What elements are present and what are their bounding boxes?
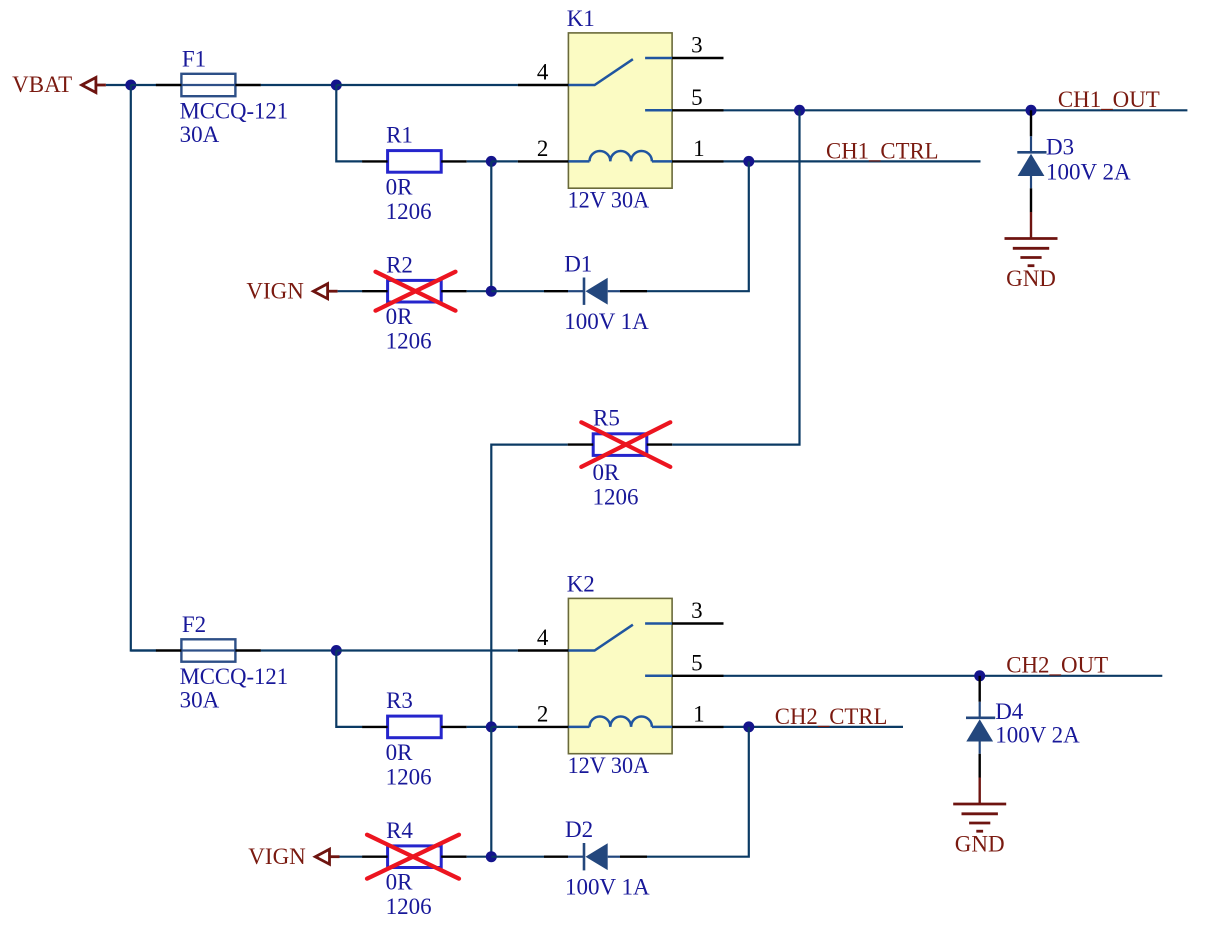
wire VBAT to junction xyxy=(106,84,131,86)
svg-text:3: 3 xyxy=(691,598,703,623)
svg-text:5: 5 xyxy=(691,651,703,676)
wire VIGN to R2 xyxy=(338,290,363,292)
pin D4 top xyxy=(979,676,981,702)
wire R1 to junction xyxy=(467,160,492,162)
svg-text:0R: 0R xyxy=(386,740,414,765)
K1 pin 2 xyxy=(518,160,569,162)
diode D4 100V 2A xyxy=(979,702,981,718)
svg-text:D4: D4 xyxy=(995,699,1024,724)
wire to F1 xyxy=(131,84,156,86)
wire junction to D2 xyxy=(491,856,544,858)
wire D2 up to K2 pin 1 xyxy=(647,727,749,857)
diode D2 100V 1A xyxy=(568,856,584,858)
K1 pin 4 xyxy=(518,84,569,86)
pin D3 bottom xyxy=(1030,188,1032,212)
svg-text:D1: D1 xyxy=(564,252,592,277)
svg-text:GND: GND xyxy=(1006,266,1056,291)
ground GND (CH2) xyxy=(979,778,981,805)
wire down to R3 xyxy=(336,651,362,727)
K1 pin 5 xyxy=(672,109,723,111)
svg-text:R3: R3 xyxy=(386,688,413,713)
svg-text:R4: R4 xyxy=(386,818,413,843)
K1 pin 3 xyxy=(672,57,723,59)
svg-text:30A: 30A xyxy=(180,122,220,147)
junction K2 pin1 / D2 xyxy=(743,721,754,732)
wire R2 to junction xyxy=(467,290,492,292)
svg-text:1206: 1206 xyxy=(386,329,432,354)
svg-text:F2: F2 xyxy=(182,612,206,637)
svg-text:2: 2 xyxy=(537,702,549,727)
svg-text:MCCQ-121: MCCQ-121 xyxy=(180,664,289,689)
svg-text:100V 2A: 100V 2A xyxy=(1046,159,1131,184)
relay K2 12V 30A xyxy=(568,598,672,753)
wire to K1 pin 4 xyxy=(336,84,518,86)
wire junction R1 down to R2 row xyxy=(490,161,492,291)
K2 pin 2 xyxy=(518,726,569,728)
junction F1 out xyxy=(331,80,342,91)
svg-text:K2: K2 xyxy=(567,571,595,596)
junction R1 out xyxy=(486,156,497,167)
not-fitted X over R4 xyxy=(367,835,459,879)
svg-text:1206: 1206 xyxy=(386,199,432,224)
wire to F2 xyxy=(131,649,156,651)
wire junction down to R4 row xyxy=(490,727,492,857)
svg-text:GND: GND xyxy=(955,832,1005,857)
wire to K2 pin 4 xyxy=(336,649,518,651)
svg-text:F1: F1 xyxy=(182,46,206,71)
svg-text:VIGN: VIGN xyxy=(248,844,306,869)
K2 pin 5 xyxy=(672,675,723,677)
junction CH1 OUT / D3 xyxy=(1026,105,1037,116)
junction R2 / D1 xyxy=(486,286,497,297)
svg-text:D3: D3 xyxy=(1046,135,1074,160)
wire VIGN to R4 xyxy=(340,856,363,858)
fuse F1 MCCQ-121 30A xyxy=(181,74,235,96)
svg-text:1206: 1206 xyxy=(386,894,432,919)
svg-text:VIGN: VIGN xyxy=(246,278,304,303)
svg-text:0R: 0R xyxy=(593,460,621,485)
relay K1 12V 30A xyxy=(568,33,672,188)
resistor R5 0R 1206 (not fitted) xyxy=(593,434,647,456)
svg-text:R2: R2 xyxy=(386,252,413,277)
svg-text:3: 3 xyxy=(691,33,703,58)
port VBAT xyxy=(82,78,96,93)
svg-text:100V 1A: 100V 1A xyxy=(565,874,650,899)
svg-text:4: 4 xyxy=(537,60,549,85)
junction R4 / D2 xyxy=(486,851,497,862)
svg-text:MCCQ-121: MCCQ-121 xyxy=(180,99,289,124)
K2 pin 3 xyxy=(672,622,723,624)
svg-text:12V 30A: 12V 30A xyxy=(568,187,650,212)
port VIGN (CH2) xyxy=(315,849,329,864)
svg-text:12V 30A: 12V 30A xyxy=(568,753,650,778)
wire F2 to junction xyxy=(261,649,336,651)
wire R5 left vertical xyxy=(491,445,567,727)
junction R3 / R5 net xyxy=(486,721,497,732)
wire junction to D1 xyxy=(491,290,544,292)
svg-text:1206: 1206 xyxy=(593,485,639,510)
wire CH1 CTRL xyxy=(724,160,981,162)
fuse F2 MCCQ-121 30A xyxy=(181,639,235,661)
svg-text:2: 2 xyxy=(537,136,549,161)
resistor R3 0R 1206 xyxy=(388,716,442,738)
svg-text:100V 2A: 100V 2A xyxy=(995,723,1080,748)
svg-text:R5: R5 xyxy=(593,405,620,430)
pin D4 bottom xyxy=(979,754,981,778)
wire to K2 pin 2 xyxy=(491,726,518,728)
svg-text:CH1_CTRL: CH1_CTRL xyxy=(826,139,939,164)
svg-text:0R: 0R xyxy=(386,870,414,895)
diode D3 100V 2A xyxy=(1030,136,1032,152)
svg-text:100V 1A: 100V 1A xyxy=(564,309,649,334)
svg-text:0R: 0R xyxy=(386,304,414,329)
svg-text:30A: 30A xyxy=(180,688,220,713)
svg-text:CH2_OUT: CH2_OUT xyxy=(1006,653,1108,678)
wire VBAT vertical to F2 xyxy=(131,85,156,651)
svg-text:VBAT: VBAT xyxy=(12,72,72,97)
wire to K1 pin 2 xyxy=(491,160,518,162)
svg-text:1: 1 xyxy=(693,702,705,727)
diode D1 100V 1A xyxy=(568,290,584,292)
not-fitted X over R2 xyxy=(376,272,456,311)
wire CH2 CTRL xyxy=(724,726,904,728)
K2 pin 4 xyxy=(518,649,569,651)
junction F2 out xyxy=(331,645,342,656)
svg-text:CH1_OUT: CH1_OUT xyxy=(1058,87,1160,112)
resistor R1 0R 1206 xyxy=(388,151,442,173)
resistor R2 0R 1206 (not fitted) xyxy=(388,280,442,302)
svg-text:CH2_CTRL: CH2_CTRL xyxy=(775,704,888,729)
svg-text:R1: R1 xyxy=(386,123,413,148)
K2 pin 1 xyxy=(672,726,723,728)
svg-text:1206: 1206 xyxy=(386,764,432,789)
wire D1 up to K1 pin 1 xyxy=(647,161,749,291)
junction VBAT rail xyxy=(125,80,136,91)
junction CH2 OUT / D4 xyxy=(974,670,985,681)
wire CH2 OUT xyxy=(724,675,1163,677)
svg-text:K1: K1 xyxy=(567,6,595,31)
not-fitted X over R5 xyxy=(581,422,670,467)
svg-text:5: 5 xyxy=(691,85,703,110)
junction K1 pin1 / D1 xyxy=(743,156,754,167)
port VIGN (CH1) xyxy=(313,284,327,299)
pin D3 top xyxy=(1030,110,1032,136)
wire F1 to junction xyxy=(261,84,336,86)
wire CH1 OUT xyxy=(724,109,1188,111)
svg-text:0R: 0R xyxy=(386,174,414,199)
svg-text:D2: D2 xyxy=(565,817,593,842)
ground GND (CH1) xyxy=(1030,212,1032,239)
junction CH1 OUT / R5 xyxy=(794,105,805,116)
wire R4 to junction xyxy=(467,856,492,858)
wire R3 to junction xyxy=(467,726,492,728)
wire R5 right up to CH1 OUT xyxy=(672,110,799,444)
resistor R4 0R 1206 (not fitted) xyxy=(388,846,442,868)
svg-text:4: 4 xyxy=(537,625,549,650)
svg-text:1: 1 xyxy=(693,136,705,161)
K1 pin 1 xyxy=(672,160,723,162)
wire down to R1 xyxy=(336,85,362,161)
